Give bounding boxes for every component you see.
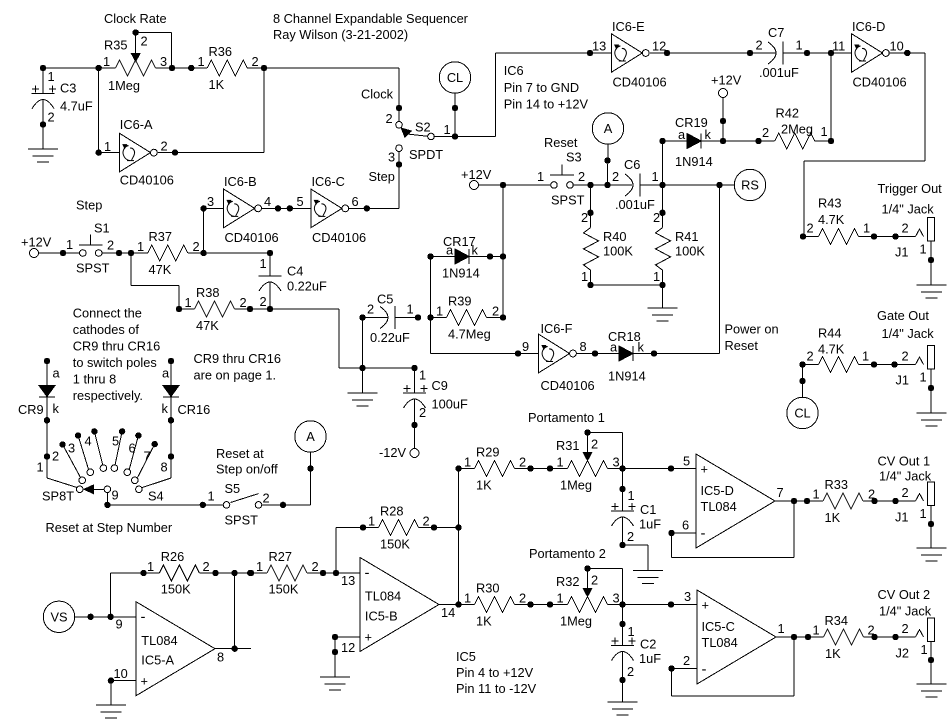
wire: CR17/C5 node to IC6-F input <box>431 257 539 357</box>
svg-text:R33: R33 <box>825 477 848 492</box>
svg-text:CD40106: CD40106 <box>120 173 174 188</box>
wire: CR19 to C6/R41 <box>662 141 664 185</box>
svg-text:100K: 100K <box>603 244 633 259</box>
svg-text:1: 1 <box>137 239 144 254</box>
capacitor C3 <box>32 68 93 149</box>
svg-text:1: 1 <box>444 122 451 137</box>
svg-text:2: 2 <box>252 54 259 69</box>
svg-text:S1: S1 <box>94 220 110 235</box>
svg-text:IC6: IC6 <box>504 63 524 78</box>
svg-text:Step: Step <box>76 198 102 213</box>
svg-text:CR16: CR16 <box>178 402 211 417</box>
svg-text:2: 2 <box>492 304 499 319</box>
-12V terminal <box>379 425 419 460</box>
switch S3 (SPST pushbutton) <box>503 150 585 208</box>
ground (IC5-A +input) <box>96 677 136 718</box>
svg-text:1K: 1K <box>825 646 841 661</box>
svg-text:CD40106: CD40106 <box>853 75 907 90</box>
svg-text:IC5-B: IC5-B <box>365 609 398 624</box>
svg-text:Ray Wilson (3-21-2002): Ray Wilson (3-21-2002) <box>273 27 408 42</box>
svg-text:Reset: Reset <box>725 338 759 353</box>
svg-text:a: a <box>610 340 618 355</box>
resistor R43 <box>800 196 877 245</box>
svg-text:1: 1 <box>581 269 588 284</box>
ground (IC5-B +input) <box>320 634 360 690</box>
svg-text:4.7Meg: 4.7Meg <box>448 327 491 342</box>
svg-text:2: 2 <box>107 238 114 253</box>
svg-text:3: 3 <box>613 455 620 470</box>
svg-text:TL084: TL084 <box>701 499 737 514</box>
svg-text:1N914: 1N914 <box>442 266 480 281</box>
svg-text:1K: 1K <box>825 510 841 525</box>
rotary switch S4 (SP8T) <box>37 420 175 508</box>
svg-text:1: 1 <box>464 455 471 470</box>
resistor R27 <box>248 549 360 597</box>
label Portamento 1 <box>528 410 605 425</box>
flag CL (gate drive) <box>787 365 818 429</box>
label Trigger Out <box>878 181 943 216</box>
flag VS (voltage source) <box>43 601 136 632</box>
svg-text:k: k <box>638 340 645 355</box>
inverter IC6-F <box>522 321 595 393</box>
resistor R40 <box>581 185 633 288</box>
svg-text:SPST: SPST <box>76 260 110 275</box>
svg-text:IC5-C: IC5-C <box>702 619 735 634</box>
svg-text:2: 2 <box>902 621 909 636</box>
svg-text:3: 3 <box>613 591 620 606</box>
svg-text:3: 3 <box>68 441 75 456</box>
potentiometer R32 (Portamento 2) <box>556 565 626 628</box>
svg-text:1: 1 <box>813 487 820 502</box>
svg-text:Reset at Step Number: Reset at Step Number <box>46 520 173 535</box>
resistor R42 <box>723 53 834 149</box>
capacitor C6 <box>612 157 720 212</box>
flag RS (reset out) <box>720 169 766 200</box>
svg-text:R34: R34 <box>825 613 848 628</box>
label Step (S1) <box>76 198 102 213</box>
svg-text:1 thru 8: 1 thru 8 <box>73 372 116 387</box>
svg-text:are on page 1.: are on page 1. <box>194 368 277 383</box>
svg-text:1: 1 <box>37 460 44 475</box>
wire: S3 to C6/A <box>573 182 632 188</box>
svg-text:Clock: Clock <box>361 86 394 101</box>
svg-text:R28: R28 <box>380 504 403 519</box>
svg-text:2: 2 <box>419 405 426 420</box>
svg-text:+12V: +12V <box>711 73 742 88</box>
label Clock <box>361 86 394 101</box>
note IC5 power <box>456 649 537 696</box>
ground (J1 trigger) <box>917 285 947 298</box>
svg-text:2: 2 <box>203 559 210 574</box>
wire: S2 common to IC6-E <box>434 50 611 140</box>
svg-text:1: 1 <box>464 591 471 606</box>
svg-text:S3: S3 <box>566 150 582 165</box>
ground (C2) <box>608 680 638 715</box>
svg-text:R27: R27 <box>269 549 292 564</box>
potentiometer R35 (Clock Rate) <box>99 29 172 93</box>
svg-text:2: 2 <box>902 221 909 236</box>
resistor R26 <box>111 549 254 617</box>
svg-text:k: k <box>162 401 169 416</box>
svg-text:R31: R31 <box>556 438 579 453</box>
svg-text:CR9: CR9 <box>18 402 44 417</box>
svg-text:respectively.: respectively. <box>73 388 143 403</box>
resistor R41 <box>653 141 705 288</box>
svg-text:1/4" Jack: 1/4" Jack <box>882 201 935 216</box>
svg-text:150K: 150K <box>269 582 299 597</box>
svg-text:CL: CL <box>447 70 463 85</box>
svg-text:100K: 100K <box>675 244 705 259</box>
svg-text:2: 2 <box>367 302 374 317</box>
label Reset at Step on/off <box>216 446 278 477</box>
op-amp IC5-A <box>114 602 225 696</box>
svg-text:IC6-D: IC6-D <box>852 19 885 34</box>
svg-text:4: 4 <box>264 194 271 209</box>
svg-text:9: 9 <box>112 488 119 503</box>
wire: S5 to flag A <box>262 452 314 508</box>
wire: IC5-C feedback <box>668 637 794 696</box>
svg-text:1K: 1K <box>209 77 225 92</box>
svg-text:SPST: SPST <box>225 513 259 528</box>
svg-text:12: 12 <box>341 640 355 655</box>
svg-text:J1: J1 <box>896 373 910 388</box>
capacitor C4 <box>259 250 328 312</box>
svg-text:A: A <box>604 121 613 136</box>
svg-text:1: 1 <box>862 349 869 364</box>
svg-text:R38: R38 <box>196 285 219 300</box>
svg-text:SPDT: SPDT <box>409 147 443 162</box>
inverter IC6-A <box>96 68 174 188</box>
svg-text:5: 5 <box>112 434 119 449</box>
svg-text:1: 1 <box>921 642 928 657</box>
svg-text:0.22uF: 0.22uF <box>370 330 410 345</box>
resistor R33 <box>775 477 878 525</box>
label Gate Out <box>877 308 934 341</box>
label Power on Reset <box>725 322 779 354</box>
svg-text:150K: 150K <box>161 582 191 597</box>
svg-text:2: 2 <box>581 210 588 225</box>
resistor R38 <box>176 285 270 333</box>
svg-text:Portamento 2: Portamento 2 <box>529 546 606 561</box>
svg-text:k: k <box>472 243 479 258</box>
svg-text:R43: R43 <box>818 196 841 211</box>
svg-text:1: 1 <box>778 621 785 636</box>
svg-text:5: 5 <box>683 454 690 469</box>
svg-text:2Meg: 2Meg <box>781 122 813 137</box>
svg-text:6: 6 <box>682 518 689 533</box>
svg-text:CR9 thru CR16: CR9 thru CR16 <box>73 339 160 354</box>
svg-text:1: 1 <box>796 38 803 53</box>
svg-text:2: 2 <box>902 349 909 364</box>
svg-text:C2: C2 <box>640 637 656 652</box>
svg-text:R26: R26 <box>161 549 184 564</box>
svg-text:R40: R40 <box>603 229 626 244</box>
svg-text:Power on: Power on <box>725 322 779 337</box>
svg-text:2: 2 <box>386 111 393 126</box>
flag A (reset at step) <box>295 421 326 452</box>
svg-text:4: 4 <box>85 434 92 449</box>
wire: IC5-D feedback <box>668 501 794 558</box>
svg-text:2: 2 <box>868 623 875 638</box>
label Reset at Step Number <box>46 520 173 535</box>
svg-text:1uF: 1uF <box>639 517 661 532</box>
svg-text:3: 3 <box>388 150 395 165</box>
svg-text:1: 1 <box>198 54 205 69</box>
svg-text:13: 13 <box>341 573 355 588</box>
svg-text:TL084: TL084 <box>702 635 738 650</box>
svg-text:5: 5 <box>297 194 304 209</box>
svg-text:7: 7 <box>777 485 784 500</box>
svg-text:2: 2 <box>868 487 875 502</box>
svg-text:C3: C3 <box>60 81 76 96</box>
svg-text:C9: C9 <box>432 378 448 393</box>
resistor R39 <box>431 294 507 342</box>
diode CR18 <box>576 329 720 384</box>
svg-text:8: 8 <box>580 339 587 354</box>
svg-text:1: 1 <box>436 304 443 319</box>
resistor R44 <box>799 326 877 373</box>
svg-text:1: 1 <box>256 559 263 574</box>
wire: main oscillator row <box>40 65 402 121</box>
+12V terminal (S3) <box>461 167 503 190</box>
svg-text:1: 1 <box>103 54 110 69</box>
svg-text:1uF: 1uF <box>639 651 661 666</box>
svg-text:1: 1 <box>185 295 192 310</box>
svg-text:Portamento 1: Portamento 1 <box>528 410 605 425</box>
svg-text:Pin 14 to +12V: Pin 14 to +12V <box>504 97 589 112</box>
resistor R36 <box>198 44 259 92</box>
svg-text:2: 2 <box>627 529 634 544</box>
svg-text:2: 2 <box>627 664 634 679</box>
resistor R28 <box>336 504 462 574</box>
svg-text:C7: C7 <box>768 25 784 40</box>
svg-text:2: 2 <box>591 437 598 452</box>
svg-text:1/4" Jack: 1/4" Jack <box>879 604 932 619</box>
svg-text:1: 1 <box>920 506 927 521</box>
jack J1 (Trigger Out) <box>874 218 935 285</box>
svg-text:J1: J1 <box>895 510 909 525</box>
note IC6 power <box>504 63 589 112</box>
svg-text:8: 8 <box>161 460 168 475</box>
svg-text:47K: 47K <box>196 318 219 333</box>
svg-text:1: 1 <box>652 169 659 184</box>
svg-text:1/4" Jack: 1/4" Jack <box>879 469 932 484</box>
svg-text:3: 3 <box>207 194 214 209</box>
resistor R34 <box>776 613 878 661</box>
svg-text:+12V: +12V <box>21 234 52 249</box>
diode CR9 <box>18 358 61 424</box>
svg-text:-: - <box>702 661 707 678</box>
svg-text:a: a <box>162 366 170 381</box>
wire: R37 to IC6-B input <box>200 205 223 253</box>
svg-text:IC6-C: IC6-C <box>312 174 345 189</box>
svg-text:SP8T: SP8T <box>42 489 74 504</box>
svg-text:1K: 1K <box>476 614 492 629</box>
svg-text:1: 1 <box>104 139 111 154</box>
svg-text:1: 1 <box>628 488 635 503</box>
svg-text:CV Out 2: CV Out 2 <box>878 587 931 602</box>
svg-text:2: 2 <box>756 38 763 53</box>
svg-text:CD40106: CD40106 <box>541 378 595 393</box>
wire: IC5-B output/R29 junction <box>439 465 462 607</box>
svg-text:2: 2 <box>193 239 200 254</box>
svg-text:2: 2 <box>578 169 585 184</box>
svg-text:6: 6 <box>129 441 136 456</box>
label Reset (S3) <box>544 135 578 150</box>
wire: R39/CR17 to S3 rail <box>500 182 506 318</box>
wire: IC6-D out loop to R43 <box>804 50 925 237</box>
svg-text:1: 1 <box>557 455 564 470</box>
svg-text:+: + <box>701 462 708 477</box>
capacitor C2 <box>611 605 661 684</box>
note: connect cathodes <box>73 306 160 404</box>
svg-text:Trigger Out: Trigger Out <box>878 181 943 196</box>
svg-text:1Meg: 1Meg <box>560 614 592 629</box>
diode CR16 <box>162 358 211 424</box>
op-amp IC5-D <box>682 454 784 549</box>
capacitor C7 <box>756 25 852 80</box>
flag CL (clock source) <box>439 62 470 137</box>
svg-text:4.7K: 4.7K <box>818 212 845 227</box>
svg-text:2: 2 <box>653 210 660 225</box>
svg-text:IC6-B: IC6-B <box>224 174 257 189</box>
svg-text:9: 9 <box>116 616 123 631</box>
svg-text:Connect the: Connect the <box>73 306 142 321</box>
ground (J1 gate) <box>917 413 947 426</box>
wire: IC6-A output feedback <box>158 68 264 156</box>
svg-text:CR9 thru CR16: CR9 thru CR16 <box>194 351 281 366</box>
label Clock Rate <box>104 11 167 26</box>
svg-text:IC5-A: IC5-A <box>141 653 174 668</box>
svg-text:Clock Rate: Clock Rate <box>104 11 167 26</box>
svg-text:a: a <box>446 243 454 258</box>
capacitor C1 <box>611 469 661 549</box>
resistor R29 <box>459 445 568 493</box>
svg-text:1: 1 <box>537 169 544 184</box>
svg-text:R39: R39 <box>448 294 471 309</box>
svg-text:to switch poles: to switch poles <box>73 355 157 370</box>
svg-text:6: 6 <box>352 194 359 209</box>
svg-text:a: a <box>53 366 61 381</box>
note: CR9 thru CR16 page 1 <box>194 351 281 383</box>
svg-text:2: 2 <box>161 139 168 154</box>
svg-text:2: 2 <box>519 591 526 606</box>
inverter IC6-C <box>311 174 366 245</box>
svg-text:A: A <box>306 429 315 444</box>
+12V terminal (CR19) <box>711 73 742 145</box>
svg-text:Pin 7 to GND: Pin 7 to GND <box>504 80 579 95</box>
svg-text:12: 12 <box>652 39 666 54</box>
svg-text:1/4" Jack: 1/4" Jack <box>882 326 935 341</box>
svg-text:8: 8 <box>217 649 224 664</box>
resistor R30 <box>459 581 568 629</box>
svg-text:Pin 4 to +12V: Pin 4 to +12V <box>456 665 534 680</box>
svg-text:1: 1 <box>813 623 820 638</box>
potentiometer R31 (Portamento 1) <box>556 429 626 492</box>
svg-text:2: 2 <box>519 455 526 470</box>
svg-text:.001uF: .001uF <box>759 65 799 80</box>
svg-text:+12V: +12V <box>461 167 492 182</box>
svg-text:R37: R37 <box>149 229 172 244</box>
svg-text:2: 2 <box>52 449 59 464</box>
svg-text:Gate Out: Gate Out <box>877 308 929 323</box>
svg-text:+: + <box>365 630 372 645</box>
svg-text:R44: R44 <box>818 326 841 341</box>
svg-text:k: k <box>705 127 712 142</box>
ground (C5 rail) <box>348 368 378 406</box>
svg-text:1: 1 <box>920 370 927 385</box>
wire: R31 to IC5-D +input <box>623 465 697 471</box>
svg-text:-12V: -12V <box>379 445 406 460</box>
svg-text:1N914: 1N914 <box>675 154 713 169</box>
svg-text:RS: RS <box>741 178 759 193</box>
svg-text:1: 1 <box>260 256 267 271</box>
svg-text:4.7uF: 4.7uF <box>60 99 93 114</box>
svg-text:SPST: SPST <box>551 193 585 208</box>
svg-text:CD40106: CD40106 <box>225 230 279 245</box>
ground (J1 CV1) <box>917 548 947 561</box>
ground (C3) <box>28 149 58 162</box>
jack J1 (CV Out 1) <box>875 482 935 548</box>
flag A (reset rail) <box>592 113 623 185</box>
jack J1 (Gate Out) <box>874 346 935 413</box>
wire: IC6-E out to C7 <box>650 50 776 56</box>
svg-text:k: k <box>53 401 60 416</box>
svg-text:Reset: Reset <box>544 135 578 150</box>
svg-text:2: 2 <box>683 653 690 668</box>
svg-text:J1: J1 <box>895 245 909 260</box>
svg-text:1: 1 <box>557 591 564 606</box>
svg-text:2: 2 <box>807 221 814 236</box>
svg-text:2: 2 <box>240 295 247 310</box>
svg-text:Step on/off: Step on/off <box>216 462 278 477</box>
svg-text:2: 2 <box>902 485 909 500</box>
svg-text:1: 1 <box>419 368 426 383</box>
svg-text:10: 10 <box>114 666 128 681</box>
svg-text:-: - <box>365 565 370 582</box>
svg-text:C1: C1 <box>640 502 656 517</box>
svg-text:C4: C4 <box>287 264 303 279</box>
ground (J2 CV2) <box>917 684 947 697</box>
svg-text:1: 1 <box>208 489 215 504</box>
wire: S1 to R37 and down <box>102 250 179 309</box>
svg-text:4.7K: 4.7K <box>818 342 845 357</box>
svg-text:1: 1 <box>821 124 828 139</box>
svg-text:R41: R41 <box>675 229 698 244</box>
svg-text:1: 1 <box>66 237 73 252</box>
svg-text:CD40106: CD40106 <box>312 230 366 245</box>
svg-text:1: 1 <box>407 302 414 317</box>
svg-text:2: 2 <box>260 294 267 309</box>
svg-text:1: 1 <box>920 242 927 257</box>
switch S1 (SPST pushbutton) <box>66 220 114 275</box>
capacitor C9 <box>403 368 468 429</box>
svg-text:10: 10 <box>890 39 904 54</box>
svg-text:CL: CL <box>794 406 810 421</box>
svg-text:0.22uF: 0.22uF <box>287 279 327 294</box>
svg-text:9: 9 <box>522 339 529 354</box>
svg-text:100uF: 100uF <box>432 397 468 412</box>
svg-text:Pin 11 to -12V: Pin 11 to -12V <box>456 681 537 696</box>
label Step <box>369 169 395 184</box>
svg-text:1: 1 <box>368 514 375 529</box>
svg-text:14: 14 <box>441 605 455 620</box>
svg-text:7: 7 <box>144 449 151 464</box>
svg-text:+: + <box>702 598 709 613</box>
svg-text:R35: R35 <box>104 37 127 52</box>
diode CR19 <box>659 115 723 169</box>
label Portamento 2 <box>529 546 606 561</box>
